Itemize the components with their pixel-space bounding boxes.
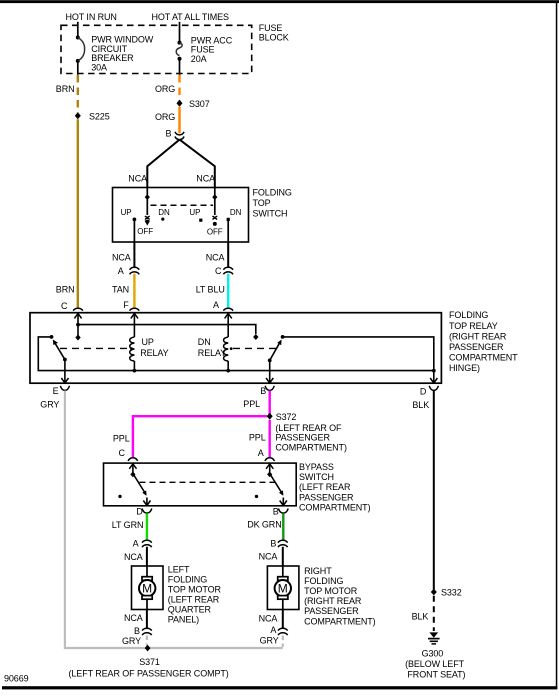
svg-text:D: D [136, 506, 143, 516]
node: right rest contact [281, 335, 285, 339]
svg-text:PPL: PPL [243, 399, 260, 409]
svg-text:TOP MOTOR: TOP MOTOR [304, 586, 358, 596]
svg-text:HOT IN RUN: HOT IN RUN [66, 12, 117, 22]
wire PPL (B to S372) [269, 391, 271, 415]
connector C (bypass top) [119, 448, 138, 461]
switch blade hooks right [213, 216, 218, 217]
svg-text:ORG: ORG [155, 112, 175, 122]
node: DN coil to bus junction [226, 369, 230, 373]
wire TAN [133, 274, 135, 308]
wire: C feed bus to right contact [78, 325, 256, 334]
pin C arrow (up) into relay [74, 313, 81, 337]
svg-text:FOLDING: FOLDING [168, 575, 207, 585]
svg-text:RELAY: RELAY [140, 348, 168, 358]
wire GRY (E to splice bus) [65, 391, 146, 648]
wire LT GRN [146, 513, 148, 540]
switch pole left (junction) [146, 188, 148, 216]
connector A (bypass top) [258, 448, 275, 461]
svg-text:DN: DN [198, 337, 211, 347]
connector A (left, inline) [118, 266, 139, 276]
svg-text:UP: UP [121, 208, 132, 217]
svg-text:(LEFT REAR OF: (LEFT REAR OF [275, 423, 342, 433]
splice S307 [177, 100, 183, 107]
svg-text:COMPARTMENT): COMPARTMENT) [299, 503, 371, 513]
wire: connector to right motor [282, 547, 284, 566]
svg-text:FOLDING: FOLDING [253, 187, 292, 197]
fuse block (dashed box) [61, 25, 252, 73]
svg-text:OFF: OFF [137, 227, 153, 236]
pin A arrow (up) into relay [225, 313, 232, 337]
svg-text:COMPARTMENT): COMPARTMENT) [304, 616, 376, 626]
wire LT BLU [227, 274, 229, 308]
svg-text:G300: G300 [422, 649, 444, 659]
wire: feed from HOT AT ALL TIMES to fuse [179, 22, 181, 43]
wire PPL (S372 down to bypass A) [269, 420, 271, 457]
svg-text:D: D [420, 386, 427, 396]
wire: V split from connector B to folding top switch [147, 140, 179, 188]
svg-text:FRONT SEAT): FRONT SEAT) [407, 669, 465, 679]
connector B (relay bottom) [260, 386, 274, 396]
svg-text:PPL: PPL [113, 433, 130, 443]
wire: right output black below box [227, 242, 229, 267]
svg-text:A: A [213, 300, 219, 310]
svg-text:TAN: TAN [112, 285, 129, 295]
wire: left pivot to E pin [64, 360, 66, 383]
svg-text:FUSE: FUSE [259, 23, 283, 33]
svg-text:NCA: NCA [259, 614, 278, 624]
svg-text:SWITCH: SWITCH [299, 472, 334, 482]
connector B (left motor bottom) [134, 626, 152, 636]
wire: D junction to D pin [433, 371, 435, 383]
wire BRN solid (S225 to relay connector C) [77, 119, 79, 307]
svg-text:BYPASS: BYPASS [299, 462, 334, 472]
wire BLK dashed (S332 to ground) [433, 596, 435, 631]
bypass blade right [267, 472, 283, 496]
ground G300 [428, 632, 440, 644]
svg-text:BLOCK: BLOCK [259, 33, 289, 43]
svg-text:DN: DN [230, 208, 242, 217]
splice S371 [145, 645, 151, 652]
svg-text:NCA: NCA [259, 551, 278, 561]
splice S332 [431, 589, 437, 596]
svg-text:COMPARTMENT): COMPARTMENT) [275, 443, 347, 453]
svg-text:(LEFT REAR: (LEFT REAR [299, 482, 351, 492]
svg-text:(RIGHT REAR: (RIGHT REAR [449, 331, 507, 341]
pin A arrow (up) into bypass [266, 464, 273, 474]
wire: blade to D pin with arrow (down) [143, 498, 150, 506]
wire GRY bus (S371 to right motor) [146, 647, 283, 649]
svg-text:S225: S225 [89, 111, 110, 121]
svg-text:NCA: NCA [128, 174, 147, 184]
svg-text:B: B [273, 506, 279, 516]
node: right energized contact (C) [253, 334, 258, 340]
pin F arrow (up) into relay [131, 313, 138, 337]
svg-text:(LEFT REAR OF PASSENGER COMPT): (LEFT REAR OF PASSENGER COMPT) [69, 668, 229, 678]
connector B (bypass bottom) [273, 506, 288, 516]
bypass mechanical link (dashed) [140, 481, 277, 483]
svg-text:QUARTER: QUARTER [168, 605, 212, 615]
wire: connector to left motor [146, 547, 148, 566]
svg-text:NCA: NCA [124, 613, 143, 623]
svg-text:F: F [123, 300, 129, 310]
svg-text:A: A [270, 625, 276, 635]
connector C (right, inline) [215, 266, 233, 276]
svg-text:A: A [118, 266, 124, 276]
connector A (left motor top) [133, 539, 152, 549]
svg-text:LEFT: LEFT [168, 565, 190, 575]
wire DK GRN [282, 513, 284, 540]
left folding top motor M1 [132, 566, 164, 610]
pin D arrow (down) [430, 378, 437, 383]
svg-text:PASSENGER: PASSENGER [449, 342, 504, 352]
wire: fuse to fuse block bottom edge [179, 59, 181, 75]
svg-text:M: M [278, 582, 288, 596]
svg-text:BRN: BRN [56, 285, 75, 295]
node: C junction dot [76, 323, 80, 327]
svg-text:TOP: TOP [253, 198, 271, 208]
svg-text:OFF: OFF [207, 228, 223, 237]
svg-text:30A: 30A [91, 63, 107, 73]
wire: switch DN contact to box bottom (right output) [227, 221, 229, 242]
svg-text:M: M [142, 582, 152, 596]
pin B arrow (down) [266, 378, 273, 383]
svg-text:BRN: BRN [56, 84, 75, 94]
connector A (right motor bottom) [270, 625, 287, 635]
bypass switch box [104, 463, 297, 506]
svg-text:LT GRN: LT GRN [112, 520, 144, 530]
svg-text:A: A [133, 539, 139, 549]
svg-text:A: A [258, 448, 264, 458]
svg-text:UP: UP [189, 208, 200, 217]
svg-text:S332: S332 [441, 587, 462, 597]
svg-text:C: C [215, 266, 222, 276]
svg-text:PPL: PPL [249, 433, 266, 443]
svg-text:PASSENGER: PASSENGER [275, 433, 330, 443]
svg-text:NCA: NCA [206, 252, 225, 262]
svg-text:S371: S371 [139, 657, 160, 667]
folding top relay box [30, 313, 441, 384]
fuse PWR ACC FUSE 20A [176, 35, 232, 64]
DN relay coil [198, 337, 228, 371]
svg-text:LT BLU: LT BLU [196, 285, 225, 295]
switch blade hooks left [145, 216, 150, 217]
folding top switch box [113, 188, 249, 243]
svg-text:UP: UP [142, 337, 154, 347]
svg-text:PASSENGER: PASSENGER [304, 606, 359, 616]
relay switch blade right [268, 340, 282, 363]
wire: switch UP contact to box bottom (left output) [133, 219, 135, 242]
wire: left output black below box [133, 242, 135, 267]
relay switch blade left [53, 340, 67, 362]
svg-text:BLK: BLK [412, 612, 429, 622]
svg-text:20A: 20A [191, 54, 207, 64]
wire BRN dashed (fuse block to S225) [77, 75, 79, 113]
svg-text:HOT AT ALL TIMES: HOT AT ALL TIMES [152, 12, 230, 22]
svg-text:SWITCH: SWITCH [253, 208, 288, 218]
svg-text:COMPARTMENT: COMPARTMENT [449, 353, 518, 363]
svg-text:RIGHT: RIGHT [304, 566, 332, 576]
UP relay coil [130, 337, 169, 371]
connector B (fuse block output) [166, 128, 185, 139]
splice S372 [267, 413, 273, 420]
svg-text:GRY: GRY [122, 636, 141, 646]
svg-text:(LEFT REAR: (LEFT REAR [168, 595, 220, 605]
svg-text:C: C [119, 448, 126, 458]
svg-text:GRY: GRY [40, 400, 59, 410]
svg-text:S372: S372 [276, 412, 297, 422]
svg-text:BLK: BLK [412, 400, 429, 410]
wire: left contact to left rail and bottom bus [38, 337, 434, 371]
svg-text:TOP MOTOR: TOP MOTOR [168, 585, 222, 595]
svg-text:DK GRN: DK GRN [247, 520, 281, 530]
mechanical link (dashed) between switch poles [151, 204, 214, 206]
svg-text:NCA: NCA [112, 252, 131, 262]
svg-text:B: B [134, 626, 140, 636]
wire: right motor to connector A [282, 610, 284, 629]
svg-text:NCA: NCA [196, 174, 215, 184]
svg-text:ORG: ORG [155, 84, 175, 94]
svg-text:RELAY: RELAY [198, 348, 226, 358]
connector E (relay bottom) [53, 386, 70, 396]
connector A (relay box top) [213, 300, 233, 311]
svg-text:(RIGHT REAR: (RIGHT REAR [304, 596, 362, 606]
node: bypass left open contact [118, 495, 121, 498]
wire GRY dashed stub (left motor to S371) [146, 636, 148, 648]
node: bypass right open contact [255, 495, 258, 498]
wire: breaker to fuse block bottom edge [77, 61, 79, 75]
pin E arrow (down) [61, 378, 68, 383]
svg-text:B: B [270, 539, 276, 549]
wire GRY dashed stub (right motor to bus) [282, 636, 284, 648]
wire ORG solid (S307 to connector B) [178, 107, 180, 134]
svg-text:NCA: NCA [124, 552, 143, 562]
connector F (relay box top) [123, 300, 139, 311]
svg-text:DN: DN [158, 208, 170, 217]
svg-text:C: C [61, 301, 68, 311]
connector D (bypass bottom) [136, 506, 152, 516]
wire: left motor to connector B [146, 610, 148, 629]
node: bus to D junction [432, 369, 436, 373]
wire: right pivot to B pin [269, 360, 271, 382]
switch pole right (junction) [214, 188, 216, 216]
wire: right contact to D rail [283, 337, 434, 371]
node: left energized contact (C) [75, 335, 80, 341]
connector B (right motor top) [270, 539, 287, 549]
wire ORG dashed (fuse block to S307) [178, 75, 180, 101]
svg-text:PASSENGER: PASSENGER [299, 492, 354, 502]
wire: blade to B pin with arrow (down) [280, 498, 287, 506]
connector C (relay box top) [61, 301, 83, 311]
wire BLK (D to S332) [433, 391, 435, 590]
svg-text:FOLDING: FOLDING [304, 576, 343, 586]
node: left rest contact [50, 335, 54, 339]
svg-text:TOP RELAY: TOP RELAY [449, 321, 498, 331]
svg-text:S307: S307 [189, 99, 210, 109]
wire: feed from HOT IN RUN to circuit breaker [77, 22, 79, 38]
svg-text:B: B [166, 128, 172, 138]
wire PPL branch (S372 left and down to bypass C) [133, 416, 267, 457]
svg-text:GRY: GRY [260, 635, 279, 645]
relay actuator link (dashed) [60, 347, 276, 350]
svg-text:E: E [53, 386, 59, 396]
svg-text:PANEL): PANEL) [168, 615, 199, 625]
bypass blade left [130, 472, 146, 496]
svg-text:HINGE): HINGE) [449, 363, 480, 373]
circuit breaker PWR WINDOW CIRCUIT BREAKER 30A [76, 34, 154, 72]
connector D (relay bottom) [420, 386, 439, 397]
right folding top motor M2 [267, 566, 299, 610]
node: UP coil to bus junction [133, 369, 137, 373]
svg-text:90669: 90669 [4, 673, 29, 683]
pin C arrow (up) into bypass [129, 464, 136, 474]
splice S225 [75, 112, 81, 119]
svg-text:(BELOW LEFT: (BELOW LEFT [405, 659, 465, 669]
svg-text:FOLDING: FOLDING [449, 310, 488, 320]
